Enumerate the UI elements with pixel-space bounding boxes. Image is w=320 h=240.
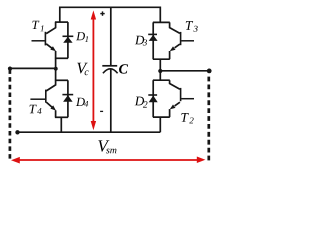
wire D3 column <box>152 22 154 59</box>
label T1 letter <box>32 21 39 29</box>
wire T1 bottom bridge <box>55 57 68 59</box>
wire T4 top bridge <box>55 79 68 81</box>
node right leg midpoint <box>158 69 162 73</box>
node bottom rail left terminal dot <box>15 130 19 134</box>
label Vc subscript <box>85 70 89 75</box>
capacitor C <box>102 66 117 74</box>
wire D4 column <box>67 80 69 117</box>
wire capacitor column upper <box>110 7 112 66</box>
wire T2 collector <box>170 80 180 89</box>
label Vc letter <box>77 63 87 74</box>
label T3 letter <box>186 21 193 30</box>
wire T2 emitter lead <box>175 102 180 106</box>
label T3 subscript <box>193 26 197 32</box>
label C <box>119 64 128 73</box>
diode D4 <box>62 95 73 102</box>
transistor T4 <box>30 90 56 111</box>
label D1 letter <box>76 32 85 40</box>
diode D3 <box>148 34 157 41</box>
transistor T3 <box>170 32 194 51</box>
polarity plus sign <box>100 11 104 15</box>
diode D2 <box>148 95 157 102</box>
label T4 letter <box>30 105 37 114</box>
label D1 subscript <box>85 36 88 42</box>
wire T3 emitter lead <box>175 44 180 48</box>
wire T3 bottom bridge <box>153 58 170 60</box>
label D2 subscript <box>143 101 148 107</box>
wire T4 bottom bridge <box>55 116 68 118</box>
wire left terminal horizontal <box>10 67 56 69</box>
wire T4 emitter lead <box>46 102 52 107</box>
wire right terminal horizontal <box>160 70 209 72</box>
wire bottom DC rail <box>18 131 161 133</box>
transistor T1 <box>32 32 57 52</box>
voltage arrow Vsm <box>11 157 205 164</box>
wire left leg bottom stub <box>60 117 62 132</box>
transistor T2 <box>170 88 194 110</box>
wire T4 collector <box>46 80 55 91</box>
wire D2 column <box>152 80 154 117</box>
wire T3 emitter column <box>169 51 171 59</box>
wire T3 collector <box>170 22 180 33</box>
node right AC terminal dot <box>207 69 212 74</box>
label Vsm letter <box>98 140 109 151</box>
wire T1 emitter column <box>55 51 57 58</box>
wire T2 emitter column <box>169 109 171 117</box>
polarity minus sign <box>100 110 103 112</box>
label T2 letter <box>181 113 188 122</box>
label D4 subscript <box>84 101 88 107</box>
wire right leg bottom stub <box>159 117 161 132</box>
wire right terminal dashed line <box>207 77 210 163</box>
label D4 letter <box>76 98 85 106</box>
wire left terminal dashed line <box>9 66 12 159</box>
wire T4 emitter column <box>55 110 57 117</box>
wire top DC rail with end stubs <box>60 7 161 22</box>
wire D1 column <box>67 22 69 58</box>
wire capacitor column lower <box>110 69 112 132</box>
wire left leg midpoint column <box>55 58 57 80</box>
label D2 letter <box>135 97 144 106</box>
wire T2 bottom bridge <box>153 116 170 118</box>
label D3 letter <box>135 36 144 45</box>
wire T2 top bridge <box>153 79 170 81</box>
wire T1 emitter lead <box>46 44 52 49</box>
wire right top bridge <box>153 21 170 23</box>
label Vsm subscript <box>106 149 116 154</box>
wire right leg midpoint stub <box>159 59 161 80</box>
label T4 subscript <box>37 108 41 114</box>
wire T1 collector <box>46 22 55 33</box>
node left leg midpoint <box>54 67 58 71</box>
diode D1 <box>63 36 74 43</box>
label T2 subscript <box>189 117 193 123</box>
node left AC terminal dot <box>8 67 12 71</box>
wire T1 top bridge <box>55 21 68 23</box>
voltage arrow Vc <box>91 10 96 130</box>
label T1 subscript <box>40 25 43 31</box>
label D3 subscript <box>143 39 147 45</box>
